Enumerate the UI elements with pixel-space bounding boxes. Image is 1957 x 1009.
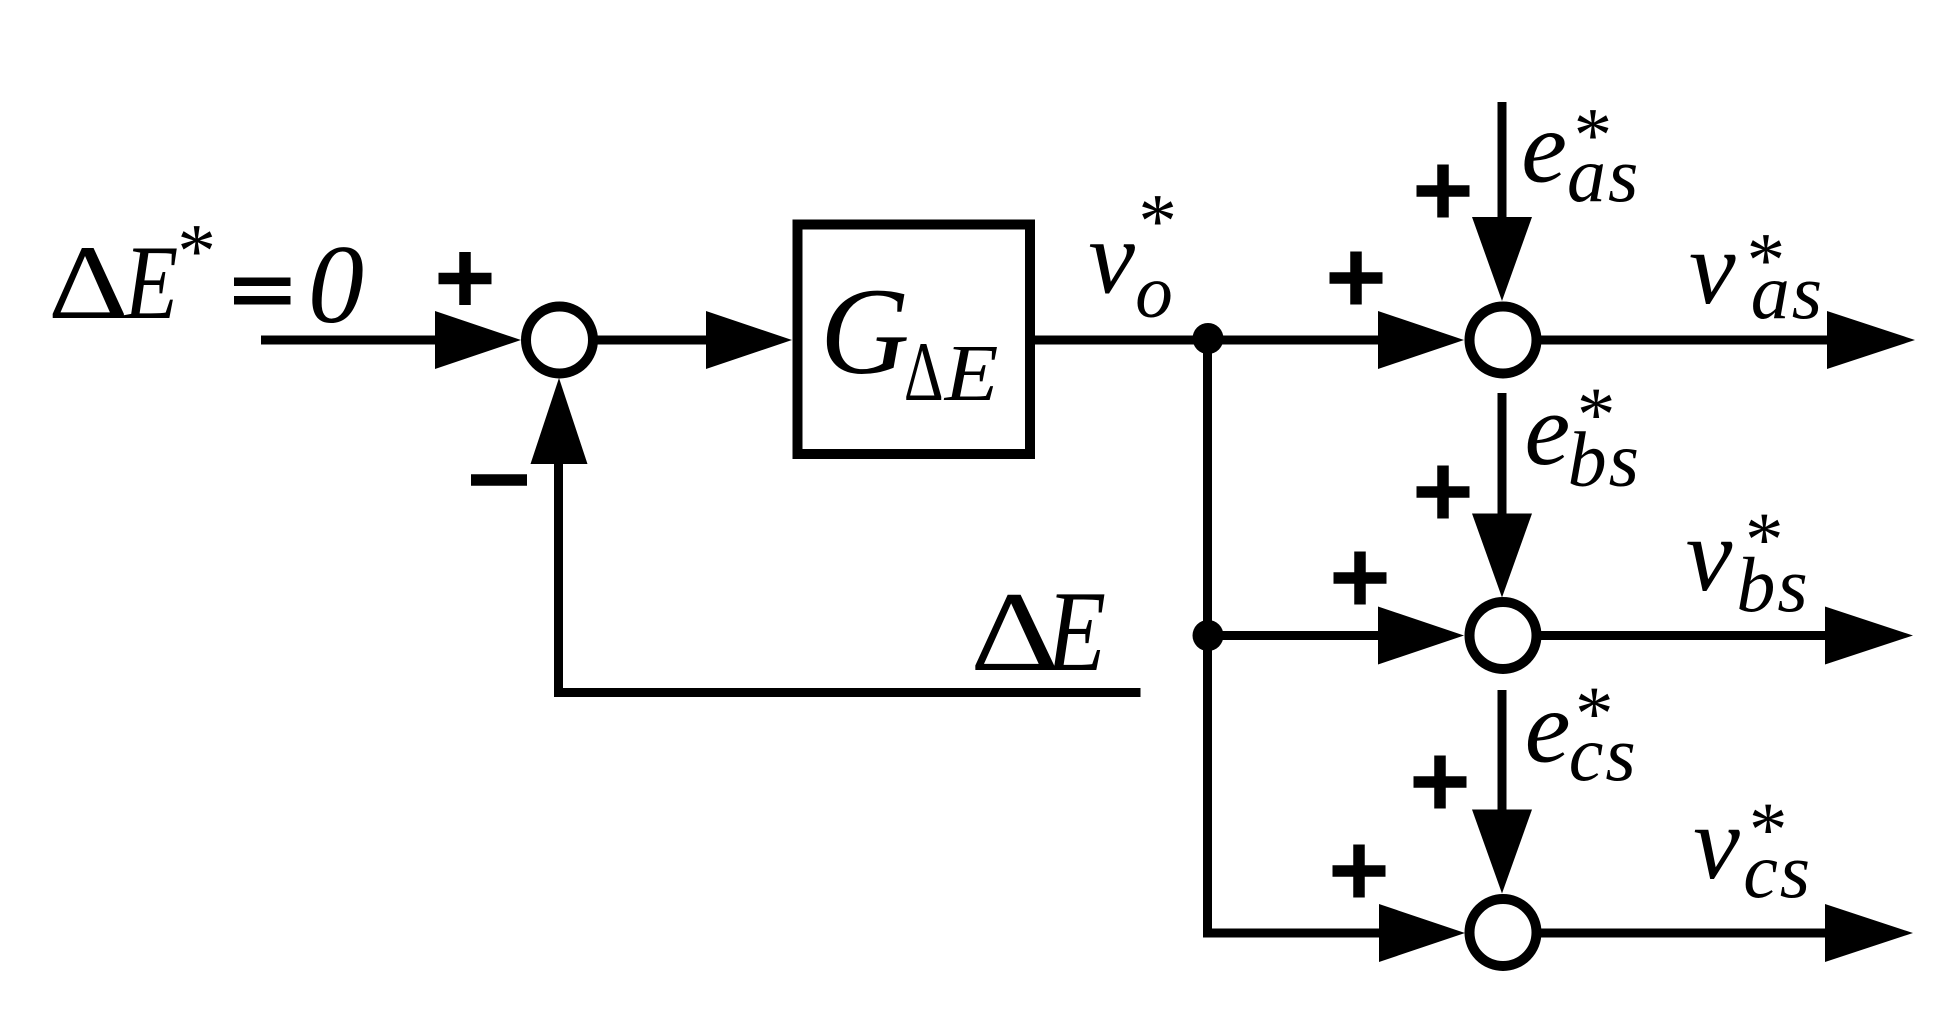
- svg-text:v: v: [1693, 784, 1740, 901]
- node input label DeltaE*=0: [48, 208, 364, 347]
- arrow into summing junction C: [1379, 904, 1465, 962]
- svg-text:e: e: [1525, 670, 1571, 784]
- wire B output: [1539, 631, 1830, 640]
- wire main vertical distribution with bottom branch: [1208, 336, 1383, 933]
- node label e_as*: [1521, 91, 1640, 218]
- wire block to summing junction A: [1035, 336, 1382, 345]
- arrow into block G: [706, 311, 792, 369]
- svg-text:as: as: [1751, 248, 1824, 335]
- junction dot J2: [1193, 620, 1224, 651]
- node label DeltaE feedback: [970, 568, 1106, 696]
- plus sign above B (vertical input): [1417, 466, 1470, 519]
- arrow e_cs into C top: [1472, 810, 1532, 894]
- svg-text:v: v: [1686, 496, 1733, 613]
- equals sign: [234, 278, 291, 287]
- node label v_cs*: [1693, 784, 1812, 914]
- svg-text:v: v: [1088, 199, 1135, 316]
- node label e_bs*: [1525, 372, 1641, 503]
- arrow C output: [1825, 904, 1913, 962]
- arrow e_as into A top: [1472, 217, 1532, 301]
- wire branch to summing junction B: [1208, 631, 1383, 640]
- node label e_cs*: [1525, 670, 1638, 797]
- arrow feedback into S1 bottom: [531, 378, 588, 464]
- summing junction B: [1470, 602, 1537, 669]
- arrow into summing junction B: [1378, 607, 1464, 665]
- minus sign at S1 feedback input: [471, 474, 527, 486]
- svg-text:Δ: Δ: [904, 325, 944, 419]
- svg-text:Δ: Δ: [48, 224, 129, 342]
- plus sign left of A (horizontal input): [1330, 252, 1383, 305]
- svg-text:0: 0: [308, 223, 364, 347]
- svg-text:cs: cs: [1569, 710, 1638, 797]
- svg-text:as: as: [1567, 131, 1640, 218]
- arrow A output: [1827, 311, 1915, 369]
- svg-text:E: E: [122, 225, 178, 342]
- wire feedback L-path: [559, 458, 1141, 693]
- svg-text:bs: bs: [1736, 541, 1809, 628]
- wire A output: [1539, 336, 1830, 345]
- svg-text:e: e: [1525, 373, 1571, 487]
- wire e_bs vertical input: [1498, 393, 1507, 520]
- wire input line: [261, 336, 445, 345]
- arrow into summing junction A: [1378, 311, 1464, 369]
- svg-text:E: E: [1045, 568, 1106, 696]
- wire e_as vertical input: [1498, 102, 1507, 225]
- plus sign left of B (horizontal input): [1334, 552, 1387, 605]
- arrow e_bs into B top: [1472, 514, 1532, 598]
- svg-text:G: G: [820, 263, 910, 400]
- summing junction C: [1470, 899, 1537, 966]
- node label v_o*: [1088, 178, 1173, 334]
- svg-text:cs: cs: [1743, 827, 1812, 914]
- wire e_cs vertical input: [1498, 690, 1507, 815]
- junction dot J1: [1193, 323, 1224, 354]
- plus sign above C (vertical input): [1414, 756, 1467, 809]
- plus sign left of C (horizontal input): [1333, 845, 1386, 898]
- svg-text:e: e: [1521, 91, 1567, 205]
- svg-text:bs: bs: [1568, 416, 1641, 503]
- arrow B output: [1825, 607, 1913, 665]
- block G_DeltaE: [798, 225, 1031, 455]
- plus sign at S1 input: [439, 252, 492, 305]
- summing junction S1: [526, 307, 593, 374]
- summing junction A: [1470, 307, 1537, 374]
- plus sign above A (vertical input): [1417, 165, 1470, 218]
- wire C output: [1539, 929, 1830, 938]
- svg-text:o: o: [1135, 251, 1173, 334]
- svg-text:E: E: [944, 329, 999, 418]
- node label v_as*: [1689, 209, 1824, 335]
- svg-text:*: *: [174, 208, 213, 294]
- node label v_bs*: [1686, 496, 1810, 628]
- svg-text:v: v: [1689, 209, 1736, 326]
- wire S1 to block: [594, 336, 712, 345]
- arrow into summing junction S1: [435, 311, 521, 369]
